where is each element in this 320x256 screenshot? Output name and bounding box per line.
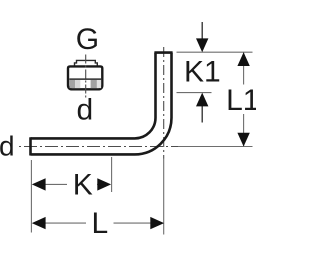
pipe inner wall (top / left) bbox=[31, 53, 156, 139]
pipe left end cap bbox=[29, 137, 32, 155]
union-nut icon body bbox=[68, 66, 102, 89]
svg-text:K1: K1 bbox=[184, 56, 221, 89]
extension line K/L left bbox=[30, 160, 32, 233]
union-nut icon collar bbox=[75, 60, 98, 66]
pipe bend outline bbox=[31, 53, 173, 156]
dimension L arrow left bbox=[32, 217, 46, 229]
dimension line K bbox=[36, 183, 106, 185]
dimension K1 leader stem top bbox=[201, 22, 203, 40]
pipe outer wall (bottom / right) bbox=[31, 53, 172, 155]
dimension K1 arrow down bbox=[196, 38, 208, 52]
svg-text:G: G bbox=[76, 23, 99, 56]
dimension L1 arrow down bbox=[237, 133, 249, 147]
svg-text:L: L bbox=[91, 207, 108, 240]
svg-text:d: d bbox=[76, 94, 93, 127]
extension line K right bbox=[111, 157, 113, 192]
svg-text:L1: L1 bbox=[226, 84, 256, 117]
dimension K arrow right bbox=[97, 178, 111, 190]
dimension K arrow left bbox=[32, 178, 46, 190]
centerline horizontal (pipe axis) bbox=[19, 146, 178, 148]
svg-text:d: d bbox=[0, 131, 15, 162]
pipe top end cap bbox=[154, 51, 172, 54]
dimension line L bbox=[36, 222, 158, 224]
union-nut icon centerline bbox=[85, 55, 87, 98]
centerline horizontal extension to L1 bbox=[178, 146, 253, 148]
extension line K1/L1 top bbox=[177, 51, 253, 53]
union-nut icon section shading bbox=[70, 80, 102, 88]
extension line K1 bottom bbox=[177, 92, 212, 94]
dimension L1 arrow up bbox=[237, 52, 249, 66]
dimension L arrow right bbox=[150, 217, 164, 229]
centerline vertical (pipe axis) bbox=[163, 47, 165, 159]
dimension K1 leader stem bottom bbox=[201, 105, 203, 123]
svg-text:K: K bbox=[73, 169, 93, 202]
union-nut icon inner line bbox=[69, 78, 101, 80]
dimension line L1 bbox=[243, 52, 245, 146]
centerline vertical extension to L bbox=[163, 159, 165, 235]
dimension K1 arrow up bbox=[196, 93, 208, 107]
